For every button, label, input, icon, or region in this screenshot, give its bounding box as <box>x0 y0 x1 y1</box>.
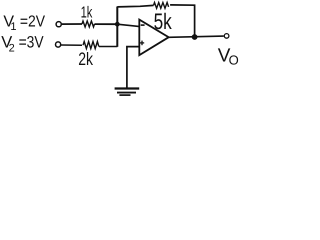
ground symbol <box>115 89 140 96</box>
node A junction dot <box>115 22 120 27</box>
terminal circle V2 <box>56 42 61 47</box>
wire V2 circle to R2 <box>61 44 82 46</box>
resistor R1 1k zigzag <box>82 21 94 27</box>
svg-text:=3V: =3V <box>19 34 44 52</box>
node V1 label <box>3 13 45 33</box>
op-amp U1 triangle <box>139 20 168 56</box>
svg-text:2: 2 <box>9 43 15 55</box>
wire R2 to corner <box>99 46 117 48</box>
wire vertical node A riser <box>116 7 118 47</box>
wire op-amp non-inverting input to ground stem <box>127 47 140 88</box>
op-amp minus sign <box>141 24 145 26</box>
op-amp plus sign <box>140 41 144 46</box>
label Vo <box>218 45 239 67</box>
output junction dot <box>192 34 198 40</box>
resistor R3 5k zigzag <box>154 3 169 9</box>
node V2 label <box>1 34 43 55</box>
wire R1 to node A <box>95 23 119 25</box>
svg-text:=2V: =2V <box>20 13 45 30</box>
svg-text:1k: 1k <box>81 5 93 22</box>
wire op-amp output <box>169 36 224 37</box>
terminal circle V1 <box>56 22 61 27</box>
resistor R2 2k zigzag <box>83 42 99 49</box>
wire feedback top right segment <box>170 5 195 37</box>
svg-text:O: O <box>229 52 239 67</box>
svg-text:2k: 2k <box>78 49 94 69</box>
terminal circle Vo <box>224 34 229 39</box>
wire feedback top left segment <box>117 5 153 7</box>
wire V1 circle to R1 <box>62 23 82 25</box>
wire node A to op-amp inverting input <box>117 24 140 26</box>
svg-text:1: 1 <box>10 21 16 33</box>
